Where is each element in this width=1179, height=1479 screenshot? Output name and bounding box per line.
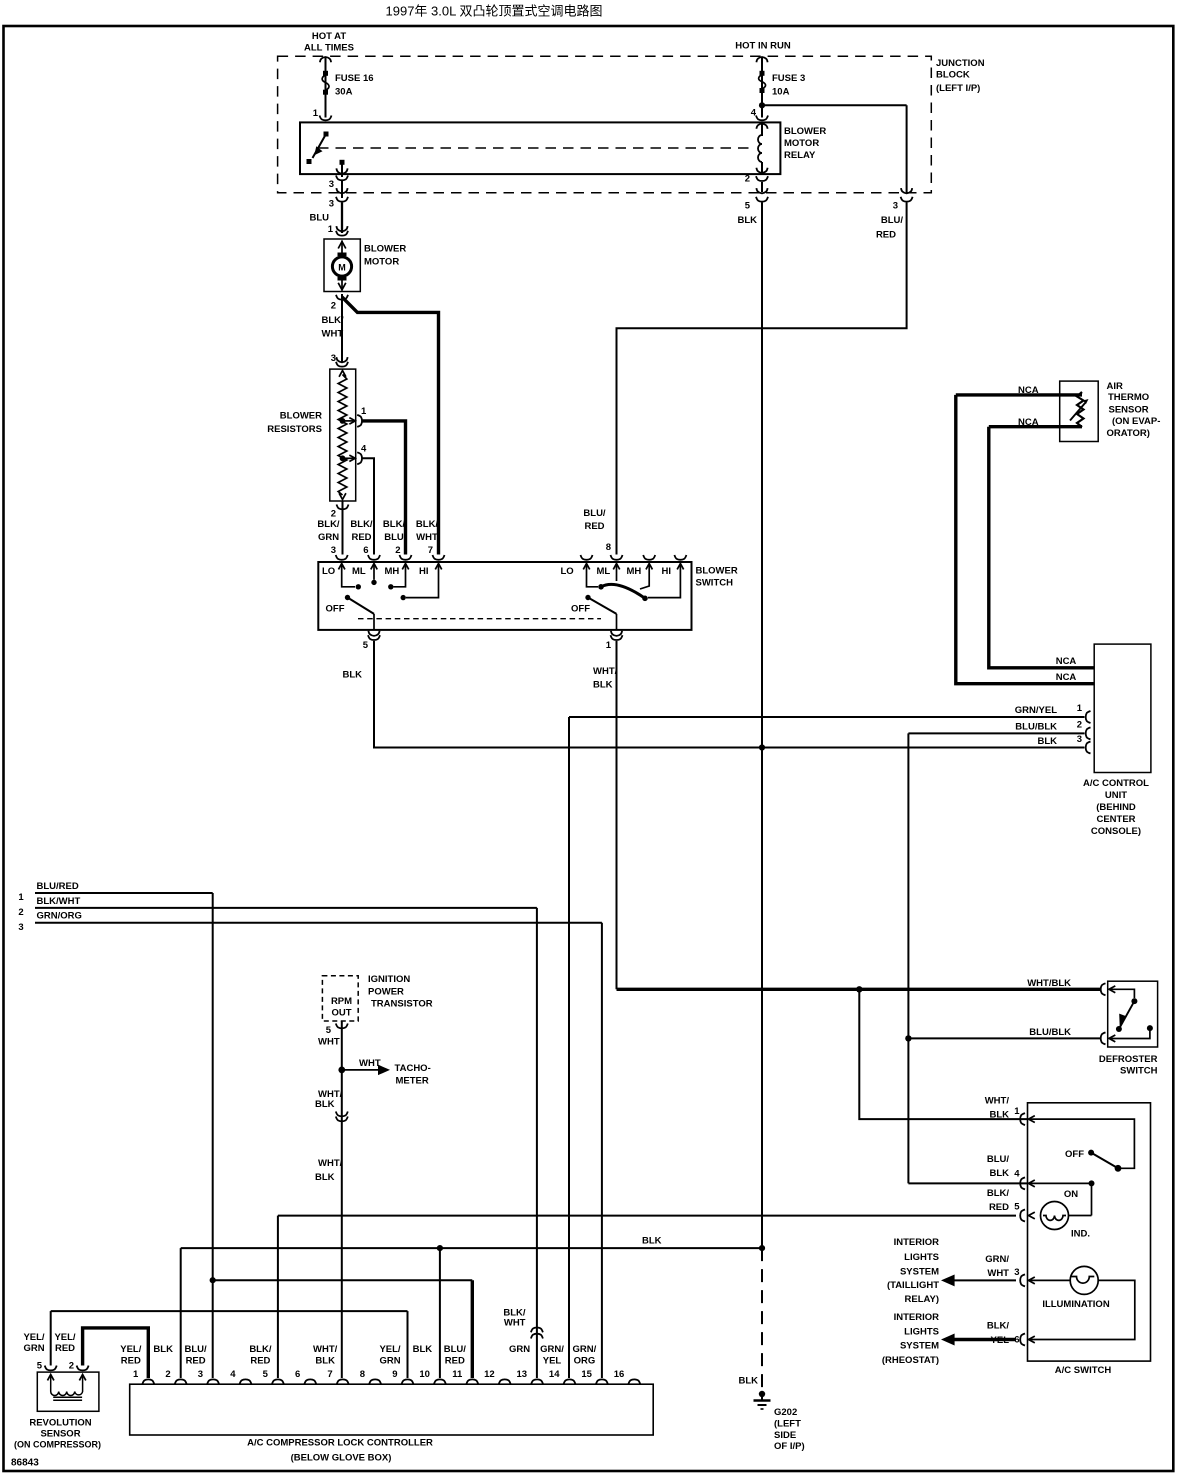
svg-text:RED: RED [186,1356,206,1367]
svg-text:WHT/: WHT/ [593,666,618,677]
svg-text:A/C COMPRESSOR LOCK CONTROLLER: A/C COMPRESSOR LOCK CONTROLLER [247,1438,433,1449]
svg-text:BLK: BLK [738,1376,758,1387]
svg-text:GRN: GRN [379,1356,400,1367]
svg-text:BLOWER: BLOWER [696,566,738,577]
svg-text:ORG: ORG [574,1356,596,1367]
svg-text:RED: RED [121,1356,141,1367]
svg-text:RED: RED [250,1356,270,1367]
svg-text:TACHO-: TACHO- [395,1063,431,1074]
svg-text:M: M [338,263,346,273]
svg-text:OFF: OFF [1065,1149,1084,1160]
svg-text:4: 4 [361,444,367,455]
svg-text:TRANSISTOR: TRANSISTOR [371,999,433,1010]
svg-text:HI: HI [662,566,672,577]
svg-text:5: 5 [326,1025,332,1036]
svg-text:RELAY: RELAY [784,150,816,161]
svg-text:BLK: BLK [153,1344,173,1355]
svg-text:RED: RED [351,532,371,543]
svg-text:11: 11 [452,1369,463,1380]
svg-text:THERMO: THERMO [1108,392,1149,403]
svg-text:(ON EVAP-: (ON EVAP- [1112,416,1160,427]
svg-text:INTERIOR: INTERIOR [894,1312,940,1323]
svg-text:BLU/: BLU/ [185,1344,208,1355]
svg-text:3: 3 [329,179,334,190]
svg-text:BLK: BLK [593,680,613,691]
svg-text:RPM: RPM [331,996,352,1007]
svg-text:GRN/YEL: GRN/YEL [1015,705,1057,716]
svg-text:NCA: NCA [1056,672,1077,683]
svg-text:WHT/BLK: WHT/BLK [1027,978,1071,989]
svg-text:(LEFT: (LEFT [774,1419,801,1430]
svg-text:BLK/WHT: BLK/WHT [37,896,81,907]
svg-text:BLOWER: BLOWER [280,411,322,422]
svg-text:2: 2 [395,545,400,556]
svg-text:BLK: BLK [989,1110,1009,1121]
svg-text:BLK/: BLK/ [416,519,439,530]
svg-text:1: 1 [1014,1106,1020,1117]
svg-text:3: 3 [331,545,336,556]
svg-text:IGNITION: IGNITION [368,974,410,985]
svg-text:1997年 3.0L 双凸轮顶置式空调电路图: 1997年 3.0L 双凸轮顶置式空调电路图 [386,4,603,19]
svg-text:ILLUMINATION: ILLUMINATION [1042,1299,1110,1310]
svg-text:BLU/: BLU/ [987,1154,1010,1165]
svg-text:MOTOR: MOTOR [364,257,399,268]
svg-text:YEL/: YEL/ [379,1344,400,1355]
svg-text:ML: ML [597,566,611,577]
svg-text:14: 14 [549,1369,560,1380]
svg-text:LIGHTS: LIGHTS [904,1252,939,1263]
svg-text:METER: METER [396,1076,429,1087]
svg-text:SENSOR: SENSOR [1109,404,1149,415]
svg-text:BLU/: BLU/ [881,215,904,226]
svg-text:3: 3 [329,199,334,210]
svg-text:BLOWER: BLOWER [784,126,826,137]
svg-text:ALL TIMES: ALL TIMES [304,43,354,54]
svg-text:ON: ON [1064,1189,1078,1200]
svg-text:GRN/: GRN/ [573,1344,597,1355]
svg-text:BLK: BLK [315,1099,335,1110]
svg-text:10A: 10A [772,87,790,98]
svg-text:WHT/: WHT/ [985,1096,1010,1107]
svg-text:OF I/P): OF I/P) [774,1441,805,1452]
svg-text:2: 2 [18,907,23,918]
svg-text:SENSOR: SENSOR [40,1429,80,1440]
svg-text:4: 4 [1014,1169,1020,1180]
svg-text:1: 1 [606,640,612,651]
svg-text:ORATOR): ORATOR) [1107,428,1150,439]
svg-text:RESISTORS: RESISTORS [267,424,322,435]
svg-text:3: 3 [331,353,336,364]
svg-text:WHT: WHT [359,1058,381,1069]
svg-text:86843: 86843 [11,1458,39,1469]
svg-text:5: 5 [37,1361,43,1372]
svg-text:13: 13 [517,1369,528,1380]
svg-text:2: 2 [331,509,336,520]
svg-text:BLK: BLK [1037,736,1057,747]
svg-text:2: 2 [165,1369,170,1380]
svg-text:GRN: GRN [23,1343,44,1354]
svg-text:FUSE 3: FUSE 3 [772,73,805,84]
svg-text:BLU/BLK: BLU/BLK [1015,722,1057,733]
svg-text:REVOLUTION: REVOLUTION [29,1417,91,1428]
svg-text:2: 2 [69,1361,74,1372]
svg-text:AIR: AIR [1107,381,1124,392]
svg-text:BLU/: BLU/ [444,1344,467,1355]
svg-text:A/C CONTROL: A/C CONTROL [1083,778,1149,789]
svg-text:RED: RED [445,1356,465,1367]
svg-text:GRN/: GRN/ [985,1254,1009,1265]
svg-text:BLK: BLK [642,1236,662,1247]
svg-text:JUNCTION: JUNCTION [936,58,985,69]
svg-text:NCA: NCA [1018,385,1039,396]
svg-text:(BELOW GLOVE BOX): (BELOW GLOVE BOX) [291,1453,392,1464]
svg-text:1: 1 [18,892,24,903]
svg-text:OUT: OUT [331,1008,351,1019]
svg-text:WHT: WHT [416,532,438,543]
svg-text:1: 1 [133,1369,139,1380]
svg-text:BLK: BLK [989,1168,1009,1179]
svg-text:OFF: OFF [326,604,345,615]
svg-text:WHT: WHT [322,329,344,340]
svg-text:(BEHIND: (BEHIND [1096,802,1136,813]
svg-text:2: 2 [1077,720,1082,731]
svg-text:BLK/: BLK/ [249,1344,272,1355]
svg-text:DEFROSTER: DEFROSTER [1099,1054,1158,1065]
svg-text:30A: 30A [335,87,353,98]
svg-text:HOT IN RUN: HOT IN RUN [735,41,791,52]
svg-text:1: 1 [361,406,367,417]
svg-text:4: 4 [230,1369,236,1380]
svg-text:5: 5 [363,640,369,651]
svg-text:5: 5 [263,1369,269,1380]
svg-text:POWER: POWER [368,987,404,998]
svg-text:WHT: WHT [318,1037,340,1048]
svg-text:CONSOLE): CONSOLE) [1091,826,1141,837]
svg-text:BLOWER: BLOWER [364,244,406,255]
svg-text:YEL/: YEL/ [54,1332,75,1343]
svg-text:2: 2 [745,174,750,185]
svg-text:RED: RED [584,521,604,532]
svg-text:BLU: BLU [309,213,329,224]
svg-text:YEL: YEL [543,1356,562,1367]
svg-text:9: 9 [392,1369,397,1380]
svg-text:7: 7 [428,545,433,556]
svg-text:1: 1 [1077,703,1083,714]
svg-text:ML: ML [352,566,366,577]
svg-text:MH: MH [385,566,400,577]
svg-text:GRN: GRN [509,1344,530,1355]
svg-text:BLU: BLU [384,532,404,543]
svg-text:BLK: BLK [413,1344,433,1355]
svg-text:MOTOR: MOTOR [784,138,819,149]
svg-text:IND.: IND. [1071,1229,1090,1240]
svg-text:1: 1 [313,108,319,119]
svg-text:HI: HI [419,566,429,577]
svg-text:7: 7 [327,1369,332,1380]
svg-text:2: 2 [331,301,336,312]
svg-text:NCA: NCA [1056,656,1077,667]
svg-text:FUSE 16: FUSE 16 [335,73,374,84]
svg-text:(LEFT I/P): (LEFT I/P) [936,83,980,94]
svg-text:A/C SWITCH: A/C SWITCH [1055,1365,1112,1376]
svg-text:BLK: BLK [315,1172,335,1183]
svg-text:SIDE: SIDE [774,1430,796,1441]
svg-text:RELAY): RELAY) [905,1294,940,1305]
svg-text:6: 6 [295,1369,300,1380]
svg-text:3: 3 [893,201,898,212]
svg-text:RED: RED [55,1343,75,1354]
svg-text:GRN: GRN [318,532,339,543]
svg-text:BLK/: BLK/ [322,315,345,326]
svg-text:SWITCH: SWITCH [1120,1066,1158,1077]
svg-text:GRN/: GRN/ [540,1344,564,1355]
svg-text:RED: RED [876,230,896,241]
svg-text:NCA: NCA [1018,417,1039,428]
svg-text:6: 6 [363,545,368,556]
svg-text:(RHEOSTAT): (RHEOSTAT) [882,1355,939,1366]
svg-text:HOT AT: HOT AT [312,31,346,42]
svg-text:BLK: BLK [343,670,363,681]
svg-text:RED: RED [989,1202,1009,1213]
svg-text:BLK: BLK [737,215,757,226]
svg-text:(TAILLIGHT: (TAILLIGHT [887,1280,939,1291]
svg-text:16: 16 [614,1369,625,1380]
svg-text:SYSTEM: SYSTEM [900,1341,939,1352]
svg-text:3: 3 [18,922,23,933]
svg-text:WHT/: WHT/ [313,1344,338,1355]
svg-text:BLK/: BLK/ [987,1321,1010,1332]
svg-text:5: 5 [745,201,751,212]
svg-text:12: 12 [484,1369,495,1380]
svg-text:1: 1 [328,224,334,235]
svg-text:8: 8 [360,1369,365,1380]
svg-text:MH: MH [627,566,642,577]
svg-text:YEL/: YEL/ [23,1332,44,1343]
svg-text:YEL/: YEL/ [120,1344,141,1355]
svg-text:BLK/: BLK/ [987,1188,1010,1199]
svg-text:LO: LO [322,566,335,577]
svg-text:SYSTEM: SYSTEM [900,1267,939,1278]
svg-text:BLU/: BLU/ [583,508,606,519]
svg-text:BLU/BLK: BLU/BLK [1029,1027,1071,1038]
svg-text:WHT: WHT [987,1268,1009,1279]
svg-text:WHT: WHT [504,1318,526,1329]
svg-text:BLK/: BLK/ [350,519,373,530]
svg-text:BLK/: BLK/ [317,519,340,530]
svg-text:5: 5 [1014,1202,1020,1213]
svg-text:UNIT: UNIT [1105,790,1127,801]
svg-text:3: 3 [1077,734,1082,745]
svg-text:BLK/: BLK/ [383,519,406,530]
svg-text:BLOCK: BLOCK [936,70,970,81]
svg-text:OFF: OFF [571,604,590,615]
svg-text:BLU/RED: BLU/RED [37,881,79,892]
svg-text:LO: LO [561,566,574,577]
svg-text:G202: G202 [774,1407,797,1418]
svg-text:3: 3 [1014,1267,1019,1278]
svg-text:10: 10 [419,1369,430,1380]
svg-text:LIGHTS: LIGHTS [904,1327,939,1338]
svg-text:15: 15 [581,1369,592,1380]
svg-text:CENTER: CENTER [1096,814,1135,825]
svg-text:BLK: BLK [315,1356,335,1367]
svg-text:WHT/: WHT/ [318,1158,343,1169]
svg-text:3: 3 [198,1369,203,1380]
svg-text:GRN/ORG: GRN/ORG [37,911,82,922]
svg-text:8: 8 [606,542,611,553]
svg-text:INTERIOR: INTERIOR [894,1237,940,1248]
svg-text:SWITCH: SWITCH [696,578,734,589]
svg-text:(ON COMPRESSOR): (ON COMPRESSOR) [14,1440,101,1450]
